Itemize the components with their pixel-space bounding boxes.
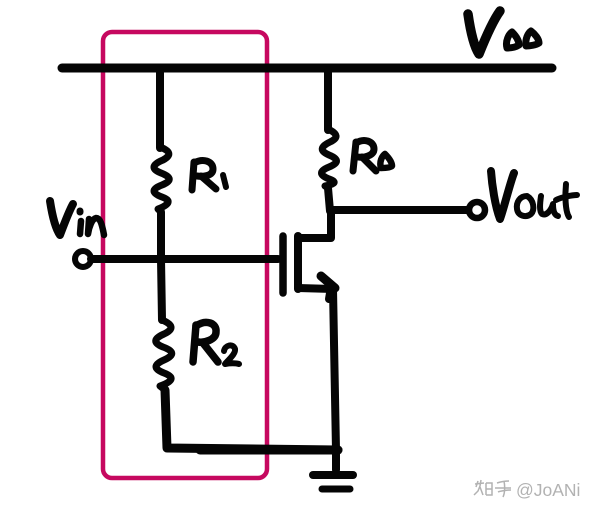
transistor M1 channel bar [294, 236, 302, 289]
highlight box (pink divider outline) [103, 32, 267, 478]
terminal Vout [469, 202, 485, 218]
ground [313, 475, 353, 489]
svg-text:@JoANi: @JoANi [516, 480, 580, 500]
watermark [474, 480, 580, 500]
wire Vout [331, 206, 468, 214]
label VDD [468, 11, 539, 54]
wire bottom [200, 446, 338, 455]
transistor M1 gate bar [279, 236, 287, 293]
transistor M1 source wire [298, 288, 336, 470]
label RD [353, 141, 392, 171]
transistor M1 source arrow [321, 276, 335, 299]
label Vin [50, 201, 104, 235]
terminal Vin [75, 251, 91, 267]
wire Vin to gate [91, 255, 278, 263]
resistor RD [322, 70, 337, 211]
resistor R1 [154, 70, 169, 259]
label R1 [192, 161, 226, 190]
label Vout [491, 171, 577, 219]
VDD rail [62, 64, 552, 73]
transistor M1 drain wire [298, 210, 331, 238]
resistor R2 [156, 259, 338, 450]
label R2 [193, 322, 239, 364]
